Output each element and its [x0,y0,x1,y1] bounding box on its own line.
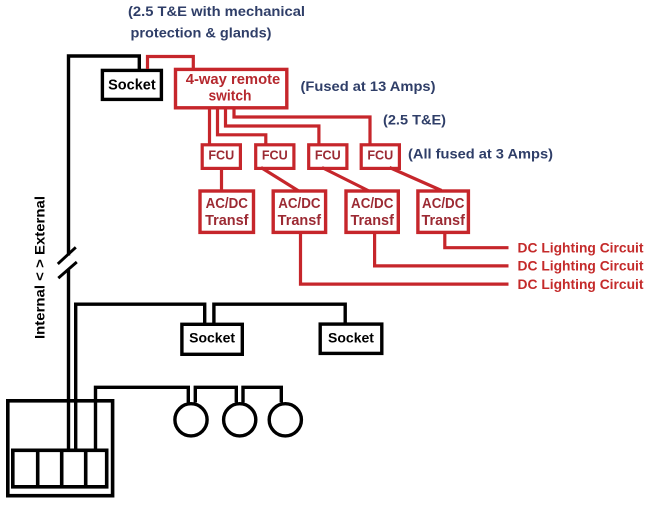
fuse divider 3 [84,451,88,488]
svg-text:Transf: Transf [351,213,395,229]
fuse divider 1 [36,451,40,488]
wire: FCU2 to transformer 2 (diagonal) [261,168,300,192]
wire: black ring feed to sockets [76,304,205,450]
wire: lamp1 loop to lamp2 [195,387,236,402]
svg-text:FCU: FCU [208,149,234,163]
svg-text:Socket: Socket [189,330,235,346]
AC/DC transformer 4 [418,191,469,232]
svg-text:Internal < > External: Internal < > External [32,196,48,339]
lamp L3 [269,404,301,436]
FCU 2 [256,145,294,169]
wire: FCU1 to transformer 1 [220,168,223,191]
svg-text:AC/DC: AC/DC [351,196,393,212]
svg-text:(Fused at 13 Amps): (Fused at 13 Amps) [301,79,436,94]
svg-text:Socket: Socket [108,77,156,93]
svg-text:FCU: FCU [262,149,288,163]
FCU 1 [202,145,240,169]
svg-text:AC/DC: AC/DC [422,196,464,212]
wire: red feed socket to 4-way remote switch [148,57,194,70]
wire: FCU3 to transformer 3 (diagonal) [322,168,370,192]
fuse divider 2 [60,451,64,488]
wire: FCU4 to transformer 4 (diagonal) [390,168,442,191]
wire: transformer 3 to DC lighting circuit 2 [375,233,509,266]
svg-text:DC Lighting Circuit: DC Lighting Circuit [518,259,645,274]
svg-text:AC/DC: AC/DC [206,196,248,212]
socket SK1 (external supply socket) [102,70,161,99]
svg-text:FCU: FCU [367,149,393,163]
lamp L2 [224,404,256,436]
wire: switch output 2 to FCU2 [218,108,266,145]
node: internal/external boundary break slash 2 [58,262,77,278]
socket SK2 [182,324,242,354]
svg-text:Socket: Socket [328,330,374,346]
svg-text:(2.5 T&E with mechanical: (2.5 T&E with mechanical [128,4,305,19]
svg-text:FCU: FCU [315,149,341,163]
wire: switch output 3 to FCU3 [226,108,319,145]
wire: transformer 2 to DC lighting circuit 3 [301,233,509,285]
wire: black mains supply lower segment from break to consumer unit [67,270,70,450]
consumer unit enclosure [8,401,113,496]
4-way remote switch box [176,69,287,107]
socket SK3 [320,324,382,353]
wire: socket loop out to socket 3 [214,304,345,324]
wire: switch output 1 to FCU1 [208,108,211,144]
svg-text:protection & glands): protection & glands) [131,25,272,40]
wire: black mains supply from socket, upper segment to break [69,56,140,256]
svg-text:DC Lighting Circuit: DC Lighting Circuit [518,240,645,255]
AC/DC transformer 1 [200,191,254,232]
svg-text:(All fused at 3 Amps): (All fused at 3 Amps) [408,146,553,161]
svg-text:Transf: Transf [205,213,249,229]
FCU 4 [361,145,399,169]
AC/DC transformer 2 [273,191,325,232]
svg-text:4-way remote: 4-way remote [186,71,281,88]
svg-text:(2.5 T&E): (2.5 T&E) [383,113,446,128]
svg-text:DC Lighting Circuit: DC Lighting Circuit [518,277,645,292]
wire: transformer 4 to DC lighting circuit 1 [445,233,509,248]
lamp L1 [175,404,207,436]
consumer unit fuse bank [13,450,107,487]
wire: black lighting feed to lamps [96,387,189,450]
node: internal/external boundary break slash 1 [58,247,76,264]
wire: lamp2 loop to lamp3 [243,387,281,402]
svg-text:Transf: Transf [278,213,322,229]
AC/DC transformer 3 [346,191,398,232]
svg-text:switch: switch [209,88,252,105]
FCU 3 [309,145,347,169]
wire: switch output 4 to FCU4 [234,108,370,145]
svg-text:AC/DC: AC/DC [278,196,320,212]
svg-text:Transf: Transf [422,213,466,229]
